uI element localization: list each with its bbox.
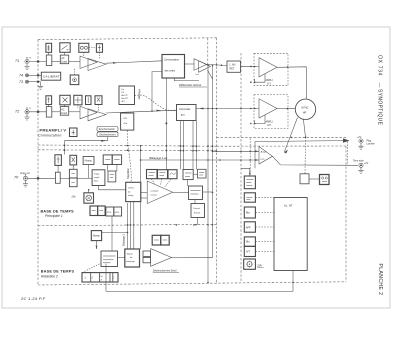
attenuator A (vertical element) bbox=[46, 55, 52, 66]
arrow on wire B bbox=[157, 110, 162, 112]
wire relay to regulator bbox=[309, 178, 320, 180]
wire amp A output bbox=[106, 61, 162, 63]
control box b4 bbox=[244, 222, 255, 232]
dashed box ampli G V bbox=[254, 53, 288, 85]
long vertical bus x=208 bbox=[207, 65, 209, 282]
niveau box BT2 bbox=[91, 231, 101, 241]
svg-text:SYNOPTIQUE: SYNOPTIQUE bbox=[377, 89, 383, 126]
wire declenchement label to BT1 bbox=[65, 137, 108, 155]
svg-text:Plaq.: Plaq. bbox=[367, 140, 373, 142]
wire box B2 to coupling bbox=[64, 105, 66, 107]
box C (correct BDB) bbox=[191, 204, 205, 218]
svg-text:+2V: +2V bbox=[357, 137, 362, 139]
rounded label declenchement bbox=[97, 132, 118, 137]
wire box A2 to coupling bbox=[64, 52, 66, 55]
delay line box bbox=[227, 61, 241, 72]
wire meter to bus bbox=[88, 190, 90, 193]
wire bbox=[52, 111, 61, 113]
attenuator B bbox=[46, 107, 52, 118]
preamp B triangle 2 bbox=[88, 109, 106, 121]
wire B to bus bbox=[203, 191, 213, 193]
control box B5 bbox=[95, 96, 102, 105]
svg-text:Balayage 2: Balayage 2 bbox=[123, 233, 126, 246]
connector J74 bbox=[26, 74, 29, 77]
dashed border right section vertical x=241 bbox=[240, 53, 242, 282]
wire box A1 to attenuator bbox=[48, 52, 50, 55]
vertical wire commutateur to BT boxes bbox=[165, 78, 167, 170]
wire amp B output bbox=[106, 110, 177, 113]
svg-text:Ma: Ma bbox=[246, 211, 250, 215]
svg-text:—: — bbox=[377, 83, 382, 88]
wire bbox=[77, 177, 92, 179]
affichage box (sensitivity legend) bbox=[119, 86, 135, 105]
wire c1 to attenuator bbox=[57, 165, 59, 172]
aux box right bbox=[108, 171, 116, 182]
aux box A2 bbox=[198, 169, 207, 178]
control box b5 bbox=[244, 237, 255, 246]
BT1 top control box d3 bbox=[168, 170, 177, 179]
svg-text:Commutat.: Commutat. bbox=[179, 108, 191, 111]
svg-text:Retardée 2: Retardée 2 bbox=[41, 275, 58, 279]
svg-text:G V: G V bbox=[267, 82, 272, 85]
dashed separator right upper bbox=[217, 136, 347, 138]
wire delay line to ampli G V bbox=[241, 65, 260, 67]
dashed box ampli G H bbox=[254, 95, 288, 129]
junction dot B branch bbox=[151, 110, 153, 112]
coupling box A bbox=[60, 55, 68, 64]
svg-text:étage: étage bbox=[94, 173, 100, 176]
control box B3 (plus symbol) bbox=[74, 95, 82, 105]
svg-text:A/T: A/T bbox=[246, 251, 250, 254]
control box B4 bbox=[86, 96, 92, 105]
control box A3 (gain switch) bbox=[79, 43, 89, 52]
feedback loop ampli G H bbox=[255, 115, 265, 124]
connector J1 (input A) bbox=[25, 59, 29, 63]
svg-text:RET.: RET. bbox=[230, 68, 236, 71]
wire c3 drop bbox=[88, 165, 90, 179]
meter box (crossed circle) bbox=[84, 193, 94, 203]
X amp input wire 1 bbox=[213, 150, 259, 152]
attenuator BT1 bbox=[55, 172, 60, 183]
mode box group 1 (dark pair) bbox=[90, 206, 98, 216]
svg-text:Niveau: Niveau bbox=[85, 161, 93, 163]
svg-text:Coupl: Coupl bbox=[61, 61, 67, 63]
svg-text:X Pl.: X Pl. bbox=[260, 159, 265, 161]
svg-text:Principale 1: Principale 1 bbox=[45, 214, 63, 218]
arrowhead on diagonal bbox=[284, 150, 288, 154]
stub commutateur to label leader bbox=[174, 78, 199, 81]
depart balayage box bbox=[125, 249, 140, 267]
svg-text:BASE DE TEMPS: BASE DE TEMPS bbox=[41, 270, 75, 274]
wire BT2 output bbox=[172, 257, 213, 259]
svg-text:niveau: niveau bbox=[151, 194, 158, 196]
wire C down bbox=[197, 218, 199, 225]
svg-text:G H: G H bbox=[267, 124, 272, 127]
dashed border top (preampli section) bbox=[38, 38, 217, 40]
trigger polarity box (2 cells) bbox=[69, 169, 77, 178]
wire bbox=[52, 61, 61, 63]
diagonal CRT to junction bbox=[303, 119, 305, 137]
wire commutateur to inverter bbox=[185, 63, 195, 65]
DASHED SECTION BORDERS bbox=[38, 38, 346, 285]
svg-text:Terre suite: Terre suite bbox=[353, 160, 364, 163]
dashed corridor vertical x=207.8 bbox=[207, 38, 209, 64]
svg-text:OX 734: OX 734 bbox=[377, 55, 383, 76]
dashed border mid vertical x=216.5 bbox=[216, 38, 218, 284]
svg-text:Synchronisation: Synchronisation bbox=[99, 128, 116, 131]
svg-text:50%: 50% bbox=[115, 212, 119, 214]
vertical wires corrector drops bbox=[180, 121, 182, 170]
dashed drop to relay box bbox=[304, 137, 307, 174]
svg-text:Correct: Correct bbox=[193, 207, 201, 210]
wire box B1 to attenuator bbox=[48, 105, 50, 107]
selector row boxes BT2 bbox=[82, 273, 118, 282]
ground under J70 bbox=[23, 180, 28, 187]
svg-text:Déclenchement: Déclenchement bbox=[100, 134, 116, 137]
svg-text:Génér.: Génér. bbox=[128, 187, 135, 190]
junction feedthrough at border (70) bbox=[37, 177, 39, 179]
svg-text:B.D.B.: B.D.B. bbox=[194, 213, 201, 215]
dashed drops boxes to triangle bbox=[152, 179, 155, 183]
ground under J2 bbox=[24, 114, 29, 120]
svg-text:25v: 25v bbox=[71, 195, 77, 199]
dashed drop A3 to amp bbox=[83, 52, 85, 56]
svg-text:balay.: balay. bbox=[128, 195, 134, 197]
vertical link x=255 bbox=[254, 142, 256, 169]
connector plate (top) bbox=[359, 139, 363, 143]
arrow to plate connector bbox=[343, 138, 350, 142]
connector J2 (input B) bbox=[25, 110, 29, 114]
dashed vertical x=250 bbox=[249, 138, 251, 175]
BT1 control box c3 (niveau) bbox=[83, 157, 94, 165]
arrow on wire A bbox=[113, 62, 118, 64]
X amp input wire 2 (from BT2 depart) bbox=[140, 147, 142, 250]
dashed drop B3 to amp bbox=[77, 105, 79, 108]
control box A4 (var) bbox=[96, 44, 102, 53]
feedback loop ampli G V bbox=[255, 74, 265, 83]
svg-text:Affichage: Affichage bbox=[138, 88, 141, 100]
diagonal CRT to X amp bbox=[284, 118, 297, 153]
BT1 control box pair c4 bbox=[103, 155, 112, 165]
junction dots on bottom dashed border bbox=[207, 282, 209, 284]
svg-text:Commutateur: Commutateur bbox=[164, 59, 179, 62]
calibrator box bbox=[41, 72, 60, 80]
wire alimentation down bbox=[292, 271, 294, 292]
comparateur BT2 box bbox=[101, 251, 118, 267]
svg-text:Inv.: Inv. bbox=[196, 74, 200, 76]
BT1 control box c2 bbox=[70, 155, 77, 165]
BT1 top control box d1 bbox=[147, 170, 158, 179]
junction dots on GH wire bbox=[207, 108, 209, 110]
lamp box bbox=[244, 259, 256, 269]
svg-text:Coupl: Coupl bbox=[61, 113, 67, 115]
impedance mark above J2 bbox=[26, 108, 28, 110]
preamp A triangle 2 bbox=[88, 59, 106, 71]
wire niveau down with arrow bbox=[96, 241, 98, 249]
wire into relay column box1 bbox=[241, 168, 250, 175]
svg-text:Av.CP: Av.CP bbox=[122, 94, 129, 97]
ground under J1 bbox=[24, 64, 29, 70]
junction feedthrough at border (B) bbox=[37, 111, 39, 113]
jumper marks on separator pair bbox=[126, 145, 128, 147]
dashed vertical link plate to terre wire bbox=[347, 142, 349, 166]
svg-text:(Balayage 1+2): (Balayage 1+2) bbox=[149, 156, 167, 160]
svg-text:Lumière: Lumière bbox=[367, 142, 376, 145]
vertical wires into depart box (3) bbox=[127, 203, 129, 249]
generateur de balayage box bbox=[126, 182, 141, 201]
dashed S link affichage to commutateur BT bbox=[135, 95, 177, 111]
dashed drop with rotated label into generateur bbox=[127, 131, 131, 183]
dashed border left bbox=[37, 40, 39, 285]
ground at end of wire 73 bbox=[38, 82, 43, 90]
svg-text:départ: départ bbox=[127, 252, 134, 255]
junction dot on separator bbox=[305, 136, 307, 138]
dashed diagonal to comparateur bbox=[82, 264, 100, 273]
wire ampli G H to CRT left bbox=[277, 108, 295, 110]
box B (correction) bbox=[189, 186, 203, 200]
dark mode boxes BT2 bbox=[152, 235, 161, 245]
svg-text:BASE DE TEMPS: BASE DE TEMPS bbox=[41, 209, 75, 213]
svg-text:AC: AC bbox=[61, 57, 65, 60]
wire declenchement bottom drop bbox=[99, 186, 126, 190]
svg-text:75: 75 bbox=[29, 108, 31, 110]
junction feedthrough at border (A) bbox=[37, 60, 39, 62]
wire comparateur BT2 down to bottom bus bbox=[105, 264, 107, 292]
wire 73 bbox=[29, 81, 41, 83]
ground under terre connector bbox=[358, 167, 363, 173]
wires c4 drops bbox=[108, 165, 117, 172]
svg-text:Ampl. ext: Ampl. ext bbox=[19, 172, 30, 175]
svg-text:AC: AC bbox=[61, 108, 65, 111]
svg-text:CALIBRAT.: CALIBRAT. bbox=[43, 74, 61, 78]
dashed separator right lower bbox=[217, 145, 347, 147]
svg-text:AL. HT: AL. HT bbox=[284, 204, 293, 208]
control box column b1 bbox=[244, 176, 255, 189]
BT1 control box c1 bbox=[55, 155, 62, 166]
relay box bbox=[300, 174, 309, 184]
svg-text:C/R: C/R bbox=[123, 118, 127, 120]
corrector box (channel B path) bbox=[177, 105, 197, 121]
impedance mark above J70 bbox=[25, 174, 27, 176]
control box b6 bbox=[244, 246, 255, 256]
svg-text:Mo: Mo bbox=[246, 241, 250, 244]
svg-text:HF: HF bbox=[303, 111, 307, 115]
wire bbox=[69, 111, 80, 113]
connector J73 bbox=[26, 80, 29, 83]
connector terre suite bbox=[359, 163, 363, 167]
svg-text:71: 71 bbox=[15, 59, 19, 63]
regulator box (dark) bbox=[320, 175, 330, 185]
svg-text:Ampli: Ampli bbox=[261, 150, 267, 153]
preamp A triangle 1 bbox=[80, 56, 97, 69]
svg-text:25%: 25% bbox=[107, 212, 111, 214]
declenchement box bbox=[92, 170, 105, 186]
long bottom wire bbox=[106, 290, 293, 292]
ground under plate connector bbox=[358, 143, 363, 149]
svg-text:Répétition: Répétition bbox=[127, 168, 130, 179]
wire plate output top bbox=[255, 140, 343, 143]
impedance mark above J1 bbox=[26, 58, 28, 60]
dashed separator BT1/BT2 bbox=[38, 224, 217, 226]
svg-text:3 et: 3 et bbox=[100, 275, 104, 278]
wire inverter to delay line bbox=[207, 64, 227, 65]
wire bbox=[69, 61, 80, 63]
svg-text:Niveau: Niveau bbox=[93, 236, 101, 238]
junction feedthrough (74) bbox=[37, 74, 39, 76]
svg-text:Compar.: Compar. bbox=[151, 189, 160, 192]
svg-text:Différentiel vertical: Différentiel vertical bbox=[179, 83, 202, 87]
arrow into corrector bbox=[200, 108, 204, 110]
junction dots at border crossing bbox=[216, 64, 218, 66]
control box b3 bbox=[244, 207, 255, 218]
trigger cells BT2 bbox=[143, 251, 151, 256]
connector J70 bbox=[23, 176, 27, 180]
dashed drop amp A to balance box bbox=[74, 69, 76, 75]
svg-text:des voies: des voies bbox=[165, 70, 176, 73]
junction dots on BT separator bbox=[176, 224, 178, 226]
junction feedthrough (73) bbox=[37, 81, 39, 83]
svg-text:A V: A V bbox=[122, 100, 126, 103]
wire to depart box bbox=[118, 256, 125, 258]
balance box under amp A bbox=[70, 75, 79, 85]
wire branch up to commutateur input 2 bbox=[152, 72, 162, 112]
svg-text:Commutation: Commutation bbox=[38, 134, 62, 138]
dashed drop A4 to amp bbox=[98, 52, 100, 59]
dashed separator upper (preampli bottom) bbox=[38, 145, 217, 146]
svg-text:PLANCHE 2: PLANCHE 2 bbox=[377, 264, 383, 296]
lower legend box bbox=[121, 113, 134, 130]
wire input A bbox=[29, 61, 46, 63]
control box B1 bbox=[46, 96, 52, 105]
wire 74 to calibrator bbox=[29, 74, 42, 76]
dashed border outer right x=346 bbox=[345, 146, 347, 282]
alimentation box bbox=[274, 198, 307, 271]
svg-text:Bw.CP: Bw.CP bbox=[122, 98, 129, 100]
dashed drop B5 to amp bbox=[98, 105, 100, 112]
svg-text:B.T.: B.T. bbox=[181, 114, 185, 117]
dashed links to alimentation box bbox=[255, 197, 274, 199]
junction dots bbox=[250, 66, 252, 68]
inverter triangle bbox=[194, 59, 207, 70]
control box b2 bbox=[244, 193, 255, 202]
svg-text:+2V: +2V bbox=[364, 163, 369, 165]
wire corrector to ampli G H bbox=[196, 108, 259, 110]
svg-text:Déclenchement Seuil: Déclenchement Seuil bbox=[153, 269, 177, 272]
svg-text:PREAMPLI V: PREAMPLI V bbox=[40, 128, 67, 133]
control box B2 (X symbol) bbox=[60, 95, 70, 105]
svg-text:ampli: ampli bbox=[94, 177, 100, 179]
dashed separator lower (base de temps top) bbox=[38, 150, 217, 151]
commutateur des voies box bbox=[162, 55, 185, 79]
svg-text:décl.: décl. bbox=[94, 180, 99, 182]
control box A2 (AC/DC switch) bbox=[60, 43, 70, 53]
long vertical bus x=212.5 bbox=[212, 65, 214, 257]
ampli X triangle bbox=[259, 147, 273, 165]
wire c2 to trigger box bbox=[72, 165, 74, 169]
svg-text:balayage: balayage bbox=[126, 261, 136, 263]
BT2 comparator triangle bbox=[151, 249, 172, 267]
wire bbox=[60, 177, 69, 179]
wire input B bbox=[29, 111, 46, 113]
relaxateur box A bbox=[183, 170, 193, 180]
wire generateur to comparator bbox=[141, 191, 147, 193]
preamp B triangle 1 bbox=[80, 106, 97, 119]
svg-text:L. AN: L. AN bbox=[230, 63, 236, 66]
svg-text:75: 75 bbox=[29, 58, 31, 60]
BT1 top control box d2 bbox=[158, 170, 168, 179]
ampli G V triangle bbox=[259, 58, 277, 77]
X amp output wire bbox=[273, 156, 358, 165]
svg-text:SYNC: SYNC bbox=[301, 105, 308, 109]
rounded label synchronisation bbox=[97, 127, 118, 132]
dashed border bottom bbox=[38, 282, 346, 285]
wire niveau to balayage verticals bbox=[102, 231, 128, 233]
svg-text:2C 1-24 P.F: 2C 1-24 P.F bbox=[20, 296, 46, 301]
wire comparator output bbox=[173, 191, 189, 193]
wire input 70 bbox=[28, 177, 56, 179]
control box A1 (position) bbox=[46, 43, 52, 52]
wire ampli G V output to CRT top bbox=[277, 67, 306, 99]
BT1 comparator triangle bbox=[147, 181, 172, 204]
ampli G H triangle bbox=[259, 99, 277, 118]
svg-text:74: 74 bbox=[19, 74, 23, 78]
CRT circle bbox=[295, 99, 315, 119]
wire B to C bbox=[194, 200, 196, 204]
mode box under amp B bbox=[70, 128, 78, 137]
dashed link A3-A4 bbox=[89, 47, 97, 49]
svg-text:AFF: AFF bbox=[246, 225, 251, 229]
mode box group 2 bbox=[106, 207, 114, 216]
coupling box B bbox=[60, 107, 68, 116]
wire mode box to comparateur BT2 bbox=[111, 216, 113, 251]
